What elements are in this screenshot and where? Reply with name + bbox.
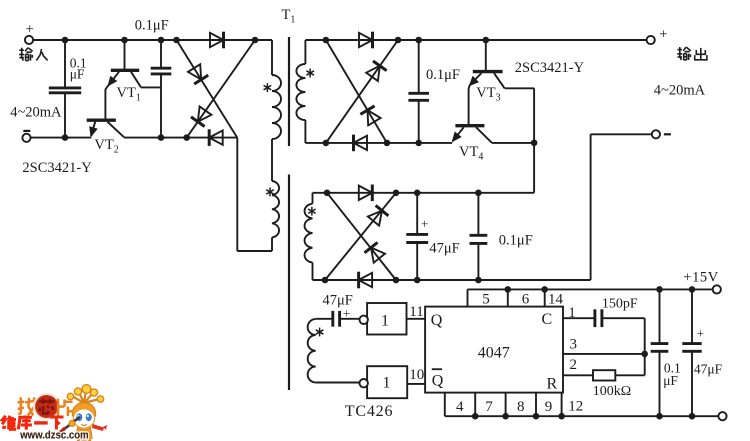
svg-text:100kΩ: 100kΩ [593,384,631,399]
svg-text:7: 7 [485,399,493,415]
svg-text:0.1μF: 0.1μF [426,67,460,83]
svg-text:1: 1 [383,375,391,392]
svg-text:47μF: 47μF [323,293,353,309]
svg-text:+: + [697,326,704,341]
svg-text:+: + [421,216,428,231]
svg-text:μF: μF [70,67,85,82]
svg-text:μF: μF [663,373,678,388]
svg-text:3: 3 [569,337,577,353]
svg-text:4047: 4047 [478,345,510,362]
svg-text:5: 5 [482,291,490,307]
svg-text:Q: Q [431,312,443,329]
svg-text:+: + [25,22,33,38]
svg-text:C: C [542,311,553,328]
svg-text:+: + [659,27,667,43]
svg-text:4~20mA: 4~20mA [654,83,706,99]
svg-text:1: 1 [568,305,576,321]
svg-text:R: R [547,376,558,393]
svg-text:9: 9 [545,399,553,415]
svg-text:Q: Q [432,372,444,389]
svg-text:6: 6 [522,291,530,307]
svg-text:14: 14 [548,291,564,307]
svg-text:0.1μF: 0.1μF [135,18,169,34]
svg-text:2SC3421-Y: 2SC3421-Y [22,160,92,176]
svg-text:150pF: 150pF [602,297,638,312]
svg-text:10: 10 [409,367,424,383]
svg-text:www.dzsc.com: www.dzsc.com [19,430,89,441]
svg-text:11: 11 [409,304,423,320]
svg-text:47μF: 47μF [429,241,459,257]
svg-text:12: 12 [568,398,583,414]
svg-text:2: 2 [569,357,577,373]
svg-text:8: 8 [517,399,525,415]
svg-text:2SC3421-Y: 2SC3421-Y [515,60,585,76]
svg-text:4: 4 [456,399,464,415]
svg-text:TC426: TC426 [345,403,393,420]
svg-text:+15V: +15V [683,270,719,286]
svg-text:0.1μF: 0.1μF [499,233,533,249]
svg-text:4~20mA: 4~20mA [10,105,62,121]
svg-text:47μF: 47μF [694,362,723,377]
svg-text:1: 1 [381,313,389,330]
